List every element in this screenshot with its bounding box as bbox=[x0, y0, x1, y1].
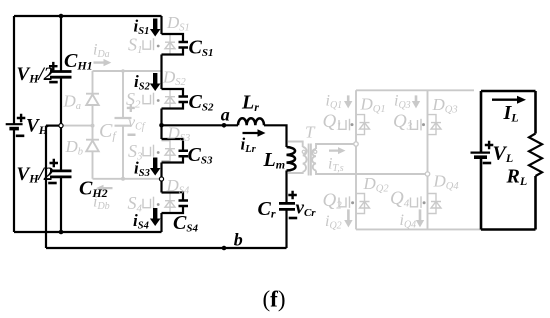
arrow I_L bbox=[492, 96, 526, 104]
CH2 minus bbox=[48, 182, 57, 185]
gray secondary bridge rails bbox=[356, 90, 481, 229]
wire: top rail bbox=[14, 15, 162, 17]
wire: primary bottom bracket bbox=[288, 172, 303, 173]
diode Da branch wire bbox=[92, 71, 94, 179]
CH1 plus bbox=[49, 62, 58, 71]
svg-text:(f): (f) bbox=[263, 287, 286, 312]
arrow i_Lr bbox=[243, 129, 266, 137]
svg-text:vCf: vCf bbox=[128, 114, 146, 133]
wire: load top bbox=[481, 90, 536, 93]
capacitor CH2 plates bbox=[50, 171, 72, 177]
arrow i_Q4 bbox=[416, 209, 424, 227]
svg-text:vCr: vCr bbox=[296, 198, 317, 220]
node: secondary top junction circle bbox=[354, 142, 358, 146]
wire: capacitor divider branch bbox=[60, 16, 62, 232]
node: open circle S3-S4 bbox=[159, 177, 163, 181]
svg-text:DS3: DS3 bbox=[167, 124, 191, 145]
wire: left rail upper bbox=[13, 16, 15, 124]
transistor S3 glyph bbox=[143, 141, 175, 161]
battery VH long plate bbox=[6, 123, 23, 125]
capacitor CS1 bracket bbox=[162, 34, 184, 55]
svg-text:DQ4: DQ4 bbox=[433, 172, 460, 193]
transistor S1 dot bbox=[157, 45, 160, 48]
svg-text:Q3: Q3 bbox=[393, 111, 413, 133]
wire: load right lower bbox=[534, 176, 537, 230]
transistor Q3 glyph bbox=[411, 115, 442, 135]
svg-text:RL: RL bbox=[506, 166, 528, 189]
svg-text:iQ1: iQ1 bbox=[326, 93, 343, 112]
wire: bridge bottom rail bbox=[356, 228, 481, 230]
svg-text:Db: Db bbox=[65, 137, 84, 158]
transformer secondary winding bbox=[312, 149, 316, 171]
transistor S4 glyph bbox=[143, 193, 175, 213]
node: secondary bottom junction circle bbox=[425, 172, 429, 176]
plus-minus marks (black) bbox=[16, 62, 494, 219]
wire: bridge leg 2 bbox=[427, 90, 429, 229]
svg-text:Q2: Q2 bbox=[323, 190, 343, 212]
wire: mid node to node b bbox=[45, 126, 47, 248]
node: gray junction dot Da-Db midpoint bbox=[91, 124, 95, 128]
battery VL short plate bbox=[474, 155, 487, 159]
svg-text:DQ3: DQ3 bbox=[432, 95, 458, 116]
arrow i_Db bbox=[96, 185, 113, 192]
svg-text:S3: S3 bbox=[128, 141, 143, 163]
wire: gray bottom rail of clamp network bbox=[93, 178, 162, 180]
wire: gray top rail of clamp network bbox=[93, 70, 162, 72]
arrow i_Q1 bbox=[344, 95, 352, 108]
arrow i_S2 bbox=[150, 73, 161, 91]
arrow i_Da bbox=[94, 59, 112, 66]
wire: Lr to corner bbox=[264, 125, 287, 147]
transformer T gray windings and core bbox=[288, 142, 428, 176]
Cf minus bbox=[128, 134, 136, 137]
capacitor CS1 plates bbox=[179, 42, 189, 48]
svg-text:Cr: Cr bbox=[258, 198, 276, 221]
wire: load left upper bbox=[480, 91, 483, 152]
svg-text:VH: VH bbox=[26, 116, 49, 138]
svg-text:CH1: CH1 bbox=[64, 50, 93, 73]
node b dot bbox=[222, 246, 227, 251]
svg-text:Cf: Cf bbox=[99, 120, 117, 143]
wire: node b rail bbox=[46, 247, 287, 249]
CH2 plus bbox=[50, 159, 59, 168]
wire: primary top bracket bbox=[288, 142, 303, 148]
arrow i_Ts bbox=[329, 147, 346, 154]
arrow i_S3 bbox=[150, 158, 161, 176]
transformer winding polarity dot left bbox=[302, 150, 305, 153]
wire: gray mid wire from divider node bbox=[62, 125, 93, 127]
node: junction dot top rail bbox=[59, 14, 64, 19]
transformer primary winding bbox=[303, 147, 307, 172]
wire: Cr to node b bbox=[285, 210, 287, 248]
arrow i_Q3 bbox=[412, 95, 420, 108]
node: open circle divider midpoint bbox=[59, 124, 63, 128]
svg-text:VL: VL bbox=[493, 143, 514, 166]
transformer winding polarity dot right bbox=[314, 150, 317, 153]
wire: bottom rail bbox=[14, 231, 162, 233]
svg-text:b: b bbox=[234, 230, 243, 250]
wire: load right upper bbox=[534, 91, 537, 134]
wire: secondary top lead to leg1 bbox=[316, 144, 356, 149]
svg-text:iQ2: iQ2 bbox=[325, 213, 342, 232]
transistor S2 glyph bbox=[143, 89, 175, 109]
svg-text:CS4: CS4 bbox=[173, 212, 198, 235]
diode Da bbox=[86, 94, 99, 105]
svg-text:iQ3: iQ3 bbox=[394, 93, 411, 112]
transistor Q2 glyph bbox=[339, 194, 370, 214]
capacitor Cr plates bbox=[279, 203, 295, 209]
wire: load left lower bbox=[480, 158, 483, 230]
GRAY TEXT LAYER bbox=[63, 13, 460, 232]
capacitor CS3 bracket bbox=[162, 139, 184, 163]
wire: switch leg segments bbox=[160, 16, 162, 232]
svg-text:Lr: Lr bbox=[241, 92, 259, 115]
svg-text:CS3: CS3 bbox=[188, 144, 213, 167]
Cr plus bbox=[288, 191, 297, 200]
wire: secondary bottom lead to leg2 bbox=[316, 171, 428, 175]
VL minus bbox=[483, 162, 492, 165]
node: junction dot bottom rail bbox=[59, 230, 64, 235]
wire: bridge top rail bbox=[356, 89, 474, 91]
resistor RL bbox=[529, 134, 542, 177]
svg-text:CS2: CS2 bbox=[189, 91, 214, 114]
CH1 minus bbox=[49, 81, 58, 84]
svg-text:T: T bbox=[305, 123, 316, 142]
transistor S2 dot bbox=[157, 99, 160, 102]
VH minus bbox=[16, 135, 25, 138]
inductor Lm bbox=[287, 147, 296, 171]
svg-text:DQ2: DQ2 bbox=[363, 174, 390, 195]
svg-text:Lm: Lm bbox=[263, 149, 286, 172]
wire: bridge leg 1 bbox=[355, 90, 357, 229]
svg-text:iLr: iLr bbox=[241, 135, 257, 156]
VH plus bbox=[17, 114, 26, 123]
Cf plus bbox=[127, 104, 135, 112]
wire: node a rail bbox=[162, 124, 239, 126]
TEXT LAYER bbox=[17, 17, 528, 250]
svg-text:S1: S1 bbox=[128, 35, 143, 57]
node: junction dot S2-S3 to a bbox=[159, 123, 164, 128]
arrow i_Q2 bbox=[344, 209, 352, 227]
svg-text:DS2: DS2 bbox=[162, 68, 187, 89]
svg-text:DS1: DS1 bbox=[166, 13, 190, 34]
svg-text:IL: IL bbox=[503, 102, 519, 125]
svg-text:CS1: CS1 bbox=[189, 37, 214, 60]
VL plus bbox=[485, 141, 494, 150]
transformer core bbox=[309, 144, 311, 176]
node a dot bbox=[222, 123, 227, 128]
svg-text:Da: Da bbox=[63, 92, 82, 113]
inductor Lr bbox=[238, 118, 264, 125]
capacitor CS3 plates bbox=[179, 151, 189, 157]
node: gray junction dot Cf bottom bbox=[121, 177, 125, 181]
capacitor CS4 bracket bbox=[162, 193, 184, 214]
capacitor Cf branch wire bbox=[122, 71, 124, 179]
wire: Lm to Cr bbox=[285, 171, 287, 204]
svg-text:Q4: Q4 bbox=[390, 188, 410, 210]
transistor S4 dot bbox=[157, 203, 160, 206]
diode Db bbox=[86, 140, 99, 152]
svg-text:a: a bbox=[221, 104, 230, 124]
BLACK WIRE LAYER bbox=[14, 16, 295, 248]
svg-text:Q1: Q1 bbox=[323, 111, 342, 133]
svg-text:iDa: iDa bbox=[93, 42, 110, 61]
svg-text:iT,s: iT,s bbox=[328, 156, 344, 175]
capacitor Cf plates bbox=[115, 118, 132, 126]
svg-text:iQ4: iQ4 bbox=[400, 212, 417, 231]
load circuit bbox=[481, 91, 542, 230]
GRAY LAYER bbox=[62, 71, 162, 179]
svg-text:iS2: iS2 bbox=[134, 72, 151, 93]
Cr minus bbox=[289, 217, 298, 220]
battery VL long plate bbox=[471, 152, 491, 154]
arrow i_S1 bbox=[150, 19, 161, 37]
svg-text:VH/2: VH/2 bbox=[17, 64, 54, 86]
capacitor CS2 bracket bbox=[162, 89, 184, 109]
wire: left rail lower bbox=[13, 129, 15, 232]
transistor Q4 glyph bbox=[411, 194, 442, 214]
node: gray junction dot Cf top bbox=[121, 69, 125, 73]
wire: load bottom bbox=[481, 228, 536, 231]
capacitor CH1 plates bbox=[50, 72, 72, 78]
transistor Q1 glyph bbox=[339, 115, 370, 135]
svg-text:DQ1: DQ1 bbox=[360, 95, 386, 116]
svg-text:DS4: DS4 bbox=[166, 176, 191, 197]
capacitor CS4 plates bbox=[179, 201, 189, 207]
battery VH short plate bbox=[9, 127, 19, 131]
transistor S1 glyph bbox=[143, 34, 175, 54]
wire: mid node stub bbox=[46, 124, 61, 126]
arrow i_S4 bbox=[150, 208, 161, 226]
capacitor CS2 plates bbox=[179, 97, 189, 103]
svg-text:S4: S4 bbox=[128, 193, 143, 215]
transistor S3 dot bbox=[157, 151, 160, 154]
